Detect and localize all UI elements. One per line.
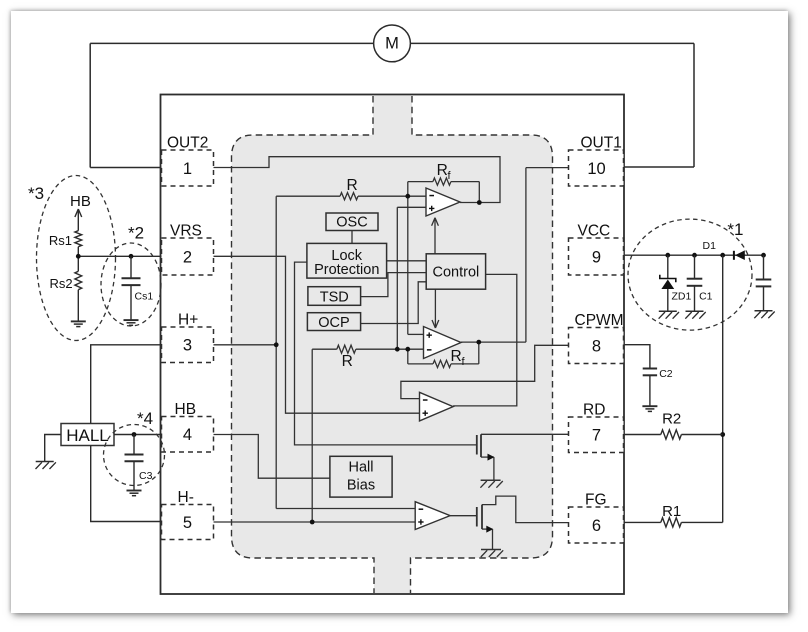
svg-text:*4: *4 [137, 409, 153, 428]
svg-text:H+: H+ [178, 311, 198, 328]
svg-text:Cs1: Cs1 [135, 291, 154, 303]
svg-text:9: 9 [592, 248, 601, 266]
svg-text:HB: HB [70, 193, 91, 210]
svg-text:R: R [451, 348, 462, 365]
svg-text:OUT2: OUT2 [167, 134, 208, 151]
svg-text:R: R [437, 162, 448, 179]
svg-text:*3: *3 [28, 184, 44, 203]
svg-text:D1: D1 [703, 240, 717, 252]
svg-text:5: 5 [183, 514, 192, 532]
svg-text:8: 8 [592, 337, 601, 355]
svg-text:H-: H- [178, 489, 194, 506]
svg-text:7: 7 [592, 427, 601, 445]
svg-text:Control: Control [433, 265, 480, 281]
svg-text:6: 6 [592, 517, 601, 535]
svg-text:R1: R1 [662, 503, 681, 520]
svg-text:R: R [342, 353, 353, 370]
svg-text:10: 10 [587, 160, 605, 178]
svg-text:VRS: VRS [170, 222, 202, 239]
svg-text:*1: *1 [727, 220, 743, 239]
svg-text:ZD1: ZD1 [672, 291, 692, 303]
svg-text:C1: C1 [699, 291, 713, 303]
svg-text:HALL: HALL [66, 426, 109, 445]
svg-text:C3: C3 [139, 470, 153, 482]
svg-text:RD: RD [583, 401, 605, 418]
svg-text:Rs2: Rs2 [50, 276, 73, 291]
svg-text:VCC: VCC [578, 222, 611, 239]
svg-text:OCP: OCP [318, 315, 349, 331]
svg-text:3: 3 [183, 337, 192, 355]
svg-text:R: R [347, 177, 358, 194]
svg-text:*2: *2 [128, 224, 144, 243]
svg-text:4: 4 [183, 426, 192, 444]
svg-text:CPWM: CPWM [575, 312, 624, 329]
svg-text:M: M [385, 35, 399, 53]
svg-text:OSC: OSC [336, 214, 367, 230]
svg-text:Rs1: Rs1 [49, 233, 72, 248]
svg-text:HB: HB [175, 401, 197, 418]
svg-text:OUT1: OUT1 [581, 134, 622, 151]
svg-text:R2: R2 [662, 411, 681, 428]
svg-text:Bias: Bias [347, 477, 375, 493]
svg-text:Protection: Protection [314, 262, 379, 278]
svg-text:1: 1 [183, 160, 192, 178]
svg-text:2: 2 [183, 248, 192, 266]
svg-text:C2: C2 [659, 368, 673, 380]
svg-text:FG: FG [585, 491, 607, 508]
svg-text:TSD: TSD [320, 290, 349, 306]
svg-text:Hall: Hall [349, 460, 374, 476]
